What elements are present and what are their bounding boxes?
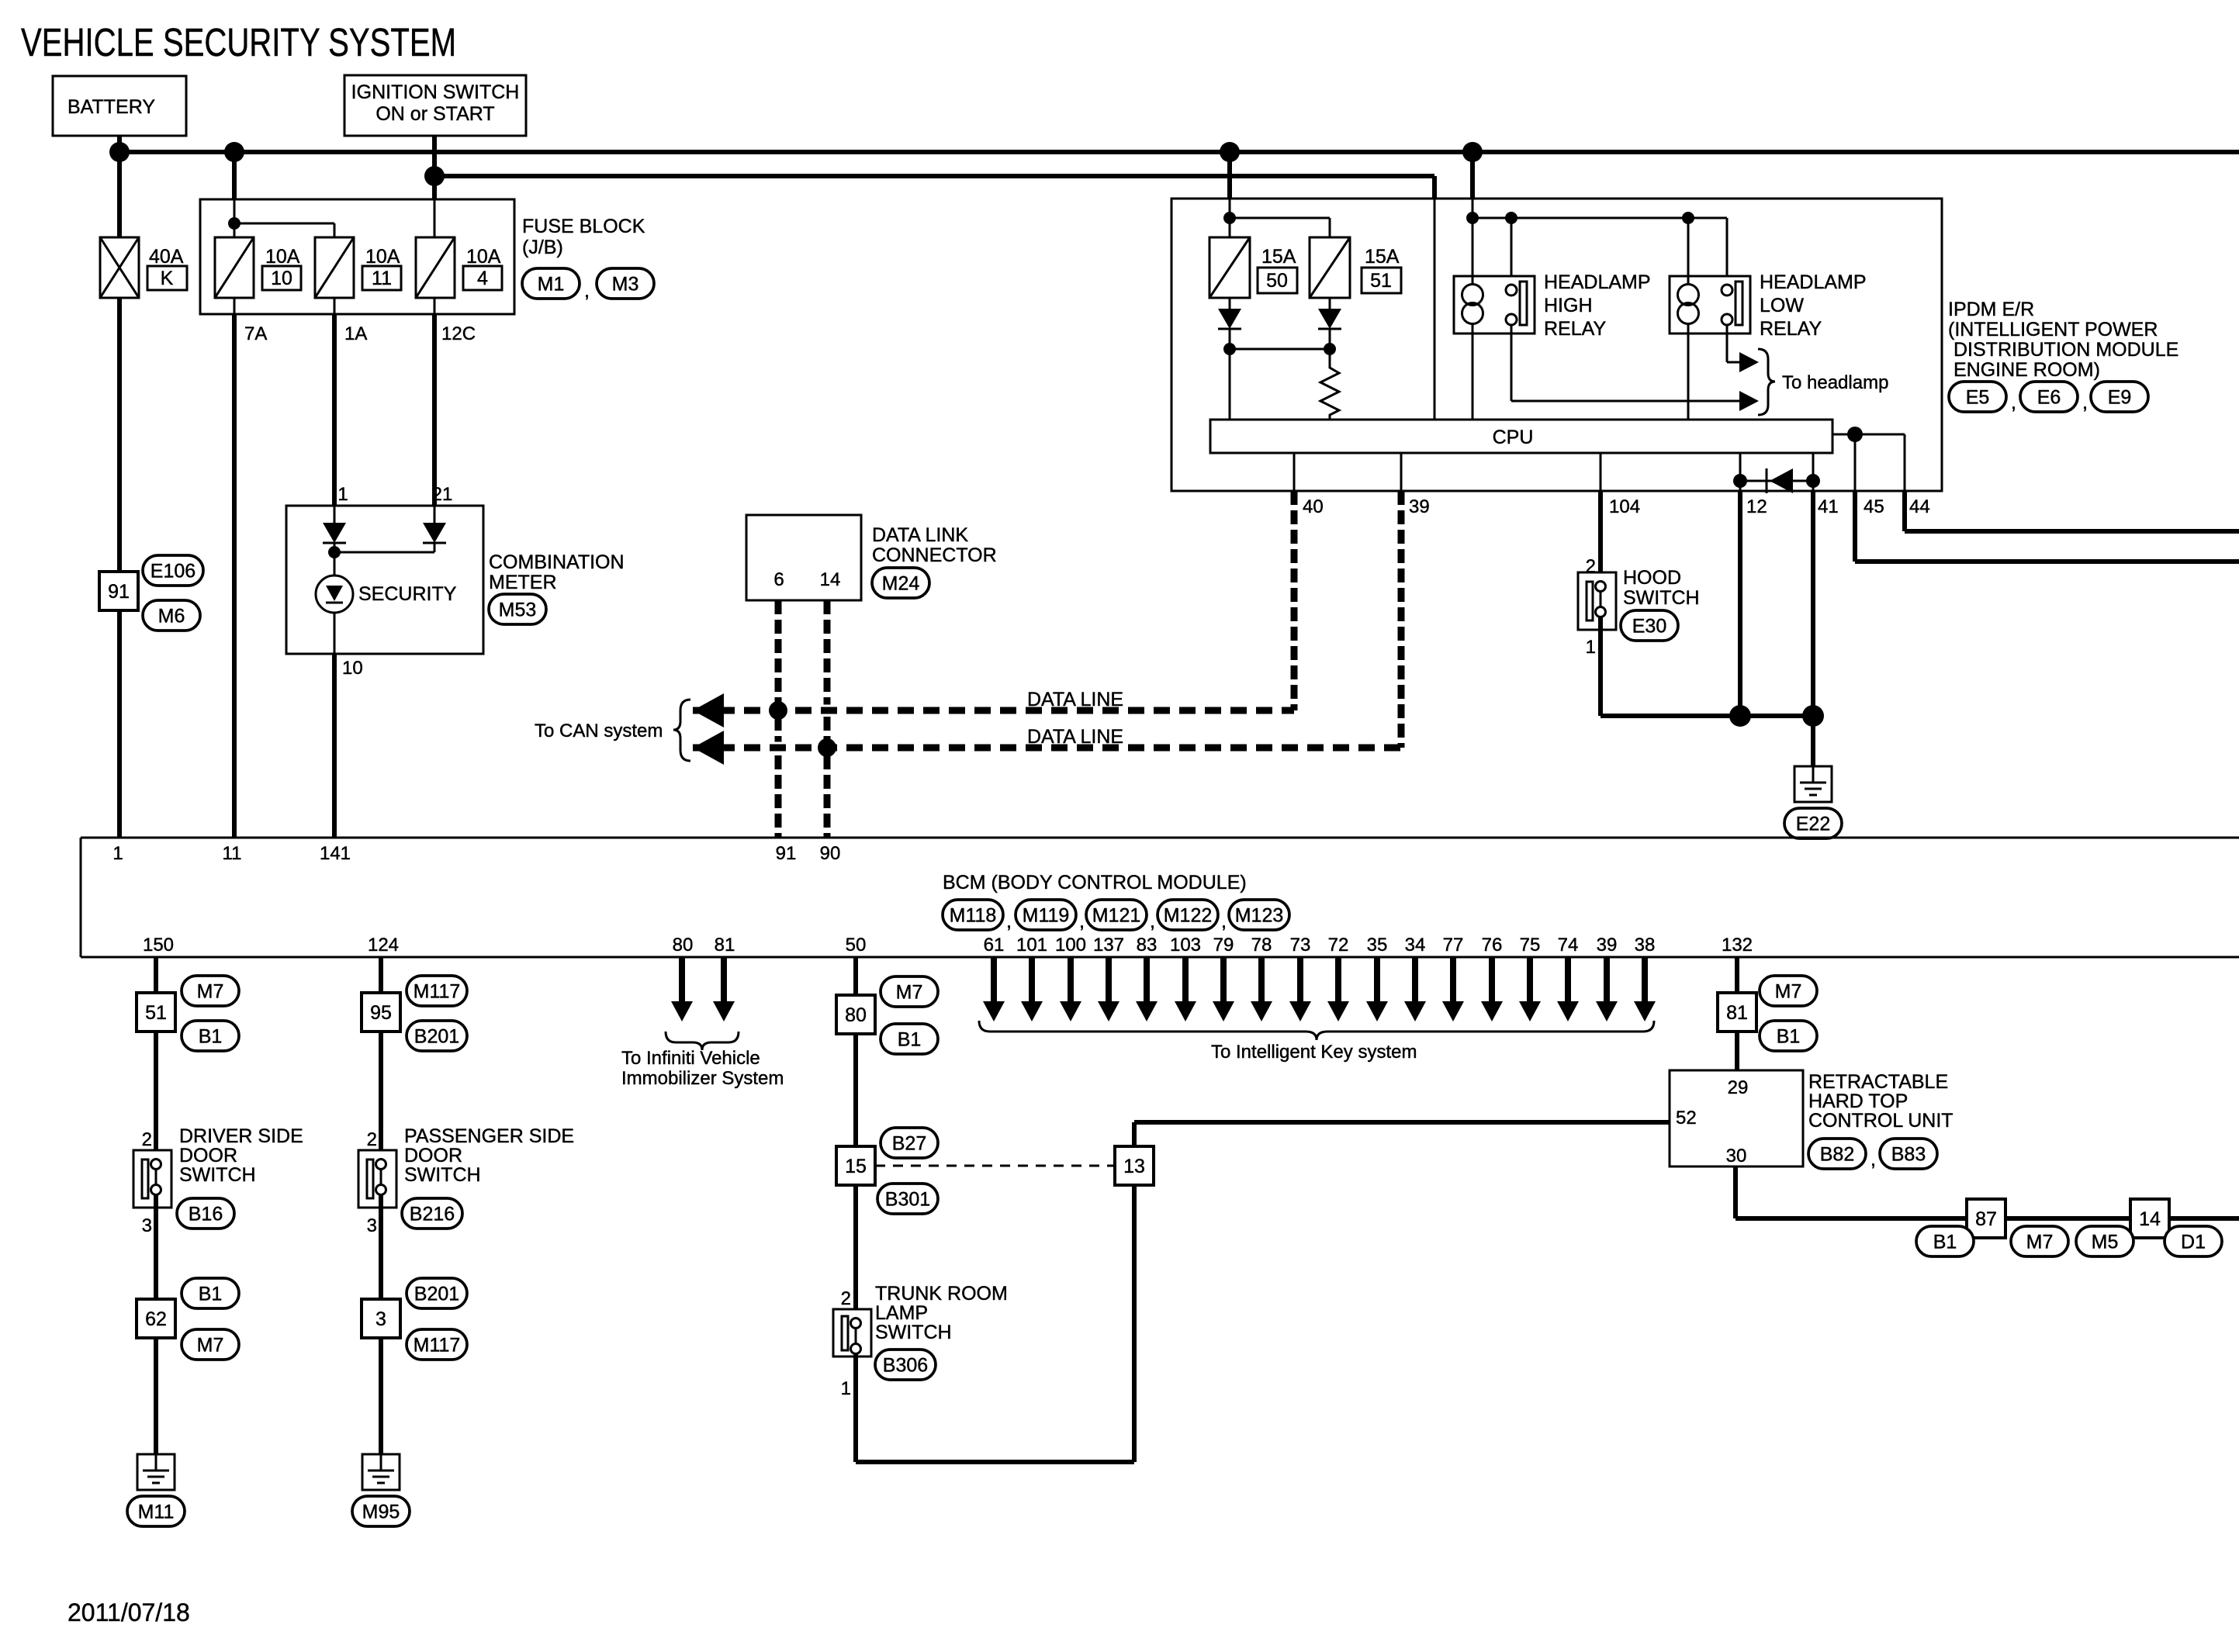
combination meter box [286, 506, 483, 654]
connector B1 [182, 1021, 239, 1051]
svg-text:PASSENGER SIDE: PASSENGER SIDE [404, 1125, 574, 1147]
svg-text:M6: M6 [158, 606, 185, 627]
svg-text:81: 81 [715, 935, 735, 956]
wire CPU to pin 41 [1812, 453, 1815, 491]
connector B16 [177, 1198, 234, 1229]
arrow BCM pin 137 to intelligent key [1106, 957, 1112, 1001]
connector 80 M7/B1 [836, 995, 875, 1034]
svg-text:104: 104 [1609, 496, 1640, 517]
svg-text:DATA LINE: DATA LINE [1027, 689, 1123, 710]
svg-text:39: 39 [1597, 935, 1618, 956]
svg-text:K: K [161, 268, 174, 289]
wire connector 62 to ground [154, 1338, 158, 1454]
wire ignition bus [434, 174, 1434, 178]
label fuse 51 box [1362, 268, 1401, 293]
wire pin 45 to right [1853, 491, 1857, 562]
wire CPU right to pins 45 44 [1832, 434, 1905, 436]
junction under diode 51 [1324, 343, 1336, 355]
junction battery bus to fuse block [224, 142, 244, 162]
svg-text:1: 1 [1586, 637, 1596, 658]
svg-text:10: 10 [342, 658, 363, 679]
wire diode outputs join [434, 543, 436, 552]
svg-text:6: 6 [773, 569, 784, 590]
svg-text:B301: B301 [885, 1189, 930, 1211]
svg-text:HIGH: HIGH [1544, 295, 1593, 316]
svg-text:35: 35 [1367, 935, 1388, 956]
connector B83 [1880, 1139, 1937, 1169]
label fuse 11 box [362, 266, 401, 290]
arrow BCM pin 76 to intelligent key [1489, 957, 1495, 1001]
wire high relay coil to CPU [1472, 334, 1474, 420]
svg-text:IPDM E/R: IPDM E/R [1948, 299, 2034, 320]
junction ignition bus [424, 166, 445, 186]
svg-text:METER: METER [489, 572, 557, 593]
junction relay rail 3 [1682, 212, 1694, 224]
svg-text:B82: B82 [1820, 1144, 1854, 1166]
svg-text:SWITCH: SWITCH [404, 1164, 481, 1186]
svg-text:,: , [1221, 911, 1227, 932]
svg-text:1: 1 [841, 1378, 851, 1399]
arrow to headlamp upper [1739, 352, 1759, 372]
svg-text:RELAY: RELAY [1760, 318, 1822, 340]
svg-text:DATA LINE: DATA LINE [1027, 726, 1123, 748]
wire meter pin 10 to BCM pin 141 [332, 654, 337, 838]
wire to high relay coil [1472, 218, 1474, 285]
svg-text:Immobilizer System: Immobilizer System [621, 1068, 784, 1089]
svg-text:M5: M5 [2092, 1232, 2119, 1253]
svg-text:2: 2 [142, 1129, 152, 1150]
arrow to headlamp lower [1739, 391, 1759, 411]
arrow BCM pin 81 to immobilizer [721, 957, 727, 1001]
wire 7A to BCM pin 11 [232, 314, 237, 838]
wire 12C to combination meter pin 21 [432, 314, 437, 506]
svg-text:D1: D1 [2181, 1232, 2206, 1253]
label fuse 4 box [463, 266, 502, 290]
arrow BCM pin 80 to immobilizer [679, 957, 685, 1001]
svg-text:E5: E5 [1966, 387, 1990, 409]
wire joining diode outputs [1230, 348, 1330, 351]
svg-text:34: 34 [1405, 935, 1426, 956]
svg-text:79: 79 [1213, 935, 1234, 956]
ground M95 [362, 1454, 400, 1490]
wire data line upper to CAN system [722, 705, 1280, 717]
CPU box [1210, 420, 1832, 453]
svg-text:CONTROL UNIT: CONTROL UNIT [1808, 1110, 1954, 1132]
wire to high relay contact [1511, 218, 1513, 285]
svg-text:LOW: LOW [1760, 295, 1804, 316]
svg-text:CONNECTOR: CONNECTOR [872, 544, 997, 566]
connector 81 M7/B1 [1718, 993, 1756, 1032]
svg-text:150: 150 [143, 935, 174, 956]
wire hard top pin 30 to right [1733, 1166, 1738, 1218]
arrow BCM pin 79 to intelligent key [1220, 957, 1227, 1001]
svg-text:73: 73 [1290, 935, 1311, 956]
diode under fuse 50 [1218, 309, 1241, 329]
wire data line lower to CAN system [722, 742, 1381, 754]
svg-text:M119: M119 [1023, 905, 1070, 927]
relay headlamp low [1670, 276, 1750, 334]
wire trunk switch to connector 13 [853, 1353, 858, 1462]
svg-text:40: 40 [1303, 496, 1324, 517]
svg-text:101: 101 [1016, 935, 1047, 956]
svg-text:M3: M3 [612, 274, 639, 295]
svg-text:78: 78 [1251, 935, 1272, 956]
svg-text:,: , [2082, 392, 2088, 413]
connector B82 [1808, 1139, 1866, 1169]
wire pin 45 inside [1854, 434, 1857, 491]
relay headlamp high [1454, 276, 1535, 334]
svg-text:1: 1 [337, 484, 348, 505]
svg-text:M7: M7 [197, 981, 224, 1003]
svg-text:IGNITION SWITCH: IGNITION SWITCH [351, 81, 520, 103]
svg-text:10: 10 [271, 268, 292, 289]
svg-text:100: 100 [1055, 935, 1086, 956]
svg-text:B201: B201 [414, 1026, 459, 1048]
svg-text:(J/B): (J/B) [522, 237, 563, 258]
svg-text:SECURITY: SECURITY [358, 583, 457, 605]
svg-text:91: 91 [108, 581, 130, 603]
svg-text:B16: B16 [189, 1204, 223, 1225]
svg-text:91: 91 [776, 843, 797, 864]
wire dashed link 15 to 13 [875, 1165, 1115, 1167]
svg-text:95: 95 [370, 1002, 392, 1024]
junction relay rail 2 [1505, 212, 1517, 224]
svg-text:72: 72 [1328, 935, 1349, 956]
wire to low relay coil [1687, 218, 1690, 285]
arrow CAN upper [693, 693, 724, 728]
svg-text:B1: B1 [898, 1029, 922, 1051]
svg-text:40A: 40A [149, 246, 184, 268]
connector M117 [407, 1329, 467, 1360]
junction relay rail 1 [1466, 212, 1479, 224]
svg-text:2: 2 [1586, 556, 1596, 577]
svg-text:74: 74 [1558, 935, 1579, 956]
svg-text:7A: 7A [244, 323, 267, 344]
svg-text:80: 80 [845, 1004, 867, 1026]
svg-text:M7: M7 [896, 982, 923, 1004]
junction ground rail 1 [1729, 705, 1751, 727]
connector 14 M5/D1 [2130, 1199, 2169, 1238]
BCM body control module box [81, 837, 2239, 839]
connector M119 [1016, 900, 1076, 930]
svg-text:81: 81 [1726, 1002, 1748, 1024]
arrow BCM pin 72 to intelligent key [1335, 957, 1341, 1001]
svg-text:21: 21 [432, 484, 453, 505]
connector M11 [127, 1496, 185, 1526]
wire battery to fuse K [117, 152, 122, 237]
wire bus to fuse block feed [232, 152, 237, 199]
junction diodes [328, 546, 341, 558]
svg-text:M121: M121 [1092, 905, 1141, 927]
data link connector box [746, 515, 861, 600]
fuse 40A K fusible link [100, 237, 139, 298]
wire junction to ground [1740, 714, 1813, 718]
svg-text:4: 4 [477, 268, 488, 289]
connector M24 [872, 568, 929, 598]
wire pin 104 to hood switch [1598, 491, 1603, 582]
connector M95 [352, 1496, 410, 1526]
brace immobilizer [666, 1032, 739, 1050]
wire pin21 to diode [434, 506, 436, 523]
svg-text:2: 2 [841, 1288, 851, 1309]
arrow BCM pin 77 to intelligent key [1450, 957, 1456, 1001]
svg-text:M118: M118 [950, 905, 997, 927]
svg-text:TRUNK ROOM: TRUNK ROOM [875, 1283, 1008, 1305]
svg-text:124: 124 [368, 935, 399, 956]
trunk room lamp switch [833, 1309, 871, 1357]
svg-text:41: 41 [1818, 496, 1839, 517]
svg-text:BCM (BODY CONTROL MODULE): BCM (BODY CONTROL MODULE) [943, 872, 1247, 893]
wire 1A to combination meter pin 1 [332, 314, 337, 506]
arrow CAN lower [693, 731, 724, 765]
svg-text:RELAY: RELAY [1544, 318, 1606, 340]
wire bus to 15A fuses [1227, 152, 1232, 199]
fuse block J/B box [200, 199, 514, 314]
wire diode 51 to resistor [1329, 329, 1331, 365]
connector B27 [881, 1128, 938, 1158]
connector M122 [1158, 900, 1218, 930]
connector E5 [1949, 382, 2006, 412]
svg-text:77: 77 [1443, 935, 1464, 956]
svg-text:HARD TOP: HARD TOP [1808, 1090, 1908, 1112]
passenger side door switch [358, 1150, 396, 1208]
svg-text:To Infiniti Vehicle: To Infiniti Vehicle [621, 1048, 760, 1069]
hood switch [1578, 572, 1616, 630]
wire feed to fuse 51 [1230, 217, 1330, 219]
diode meter left [323, 523, 346, 543]
connector M123 [1229, 900, 1289, 930]
connector M6 [143, 600, 200, 631]
svg-text:B1: B1 [199, 1026, 223, 1048]
svg-text:DATA LINK: DATA LINK [872, 524, 968, 546]
svg-text:DOOR: DOOR [179, 1145, 237, 1166]
svg-text:12: 12 [1746, 496, 1767, 517]
svg-text:10A: 10A [365, 246, 400, 268]
svg-text:11: 11 [372, 268, 392, 289]
wire connector 15 to trunk switch [853, 1185, 858, 1328]
connector B201 [407, 1021, 467, 1051]
arrow BCM pin 78 to intelligent key [1258, 957, 1265, 1001]
junction CPU right [1847, 427, 1863, 442]
connector M1 [522, 268, 580, 299]
svg-text:M24: M24 [882, 573, 920, 595]
svg-text:13: 13 [1123, 1156, 1145, 1177]
svg-text:E9: E9 [2108, 387, 2132, 409]
ignition switch supply [344, 75, 526, 136]
svg-text:M7: M7 [197, 1335, 224, 1357]
connector E9 [2091, 382, 2148, 412]
arrow BCM pin 100 to intelligent key [1068, 957, 1074, 1001]
svg-text:44: 44 [1909, 496, 1930, 517]
label fuse 50 box [1258, 268, 1297, 293]
svg-text:(INTELLIGENT POWER: (INTELLIGENT POWER [1948, 319, 2158, 340]
wire to low relay contact [1726, 218, 1729, 285]
svg-text:LAMP: LAMP [875, 1302, 928, 1324]
wire pin 44 to right [1902, 491, 1907, 531]
svg-text:61: 61 [984, 935, 1005, 956]
wire low relay coil to CPU [1687, 334, 1690, 420]
ground E22 [1794, 766, 1832, 802]
connector B216 [402, 1198, 462, 1229]
svg-text:132: 132 [1722, 935, 1753, 956]
wire battery to bus [117, 136, 122, 152]
connector M121 [1086, 900, 1147, 930]
fuse 10A 10 [215, 237, 254, 298]
svg-text:103: 103 [1170, 935, 1201, 956]
connector M7 [182, 976, 239, 1006]
junction battery bus at battery [109, 142, 130, 162]
svg-text:B1: B1 [199, 1284, 223, 1305]
arrow BCM pin 73 to intelligent key [1297, 957, 1303, 1001]
svg-text:75: 75 [1520, 935, 1541, 956]
wire battery bus [119, 150, 2239, 154]
svg-text:To CAN system: To CAN system [535, 721, 663, 741]
connector M7 [1760, 976, 1817, 1006]
svg-text:29: 29 [1728, 1077, 1749, 1098]
brace to headlamp [1758, 349, 1775, 415]
wire CPU to pin 12 [1739, 453, 1742, 491]
connector B201 [407, 1278, 467, 1308]
wire fuse 11 to pin 1A [334, 298, 336, 314]
svg-text:M11: M11 [138, 1502, 175, 1523]
svg-text:To headlamp: To headlamp [1782, 372, 1888, 393]
svg-text:M53: M53 [499, 600, 537, 621]
connector D1 [2165, 1226, 2222, 1256]
svg-text:,: , [1006, 911, 1012, 932]
svg-text:137: 137 [1093, 935, 1124, 956]
junction under diode 50 [1223, 343, 1236, 355]
wire high relay contact to headlamp lower [1511, 325, 1513, 401]
svg-text:M117: M117 [414, 981, 461, 1003]
svg-text:50: 50 [1266, 270, 1288, 292]
svg-text:B201: B201 [414, 1284, 459, 1305]
svg-text:DISTRIBUTION MODULE: DISTRIBUTION MODULE [1954, 339, 2178, 361]
connector 87 B1/M7 [1967, 1199, 2005, 1238]
svg-text:50: 50 [846, 935, 867, 956]
wire diode row 12-41 [1740, 480, 1813, 482]
svg-text:10A: 10A [466, 246, 501, 268]
wire BCM pin 150 down [154, 957, 158, 1160]
connector 13 [1115, 1146, 1154, 1185]
svg-text:3: 3 [375, 1308, 386, 1330]
connector B1 [881, 1024, 938, 1054]
wire passenger switch to connector 3 [379, 1194, 383, 1299]
junction battery bus to IPDM fuses [1220, 142, 1240, 162]
ground M11 [137, 1454, 175, 1490]
connector E106 [143, 555, 203, 586]
svg-text:B1: B1 [1777, 1026, 1801, 1048]
wire pin 44 inside [1904, 434, 1906, 491]
arrow BCM pin 38 to intelligent key [1642, 957, 1648, 1001]
svg-text:DRIVER SIDE: DRIVER SIDE [179, 1125, 303, 1147]
svg-text:51: 51 [1370, 270, 1392, 292]
wire CAN-H pin 6 to BCM pin 91 [775, 600, 782, 838]
resistor in IPDM [1320, 365, 1339, 420]
svg-text:14: 14 [820, 569, 841, 590]
svg-text:141: 141 [320, 843, 351, 864]
wire relay feed rail [1472, 217, 1727, 219]
svg-text:To Intelligent Key system: To Intelligent Key system [1211, 1042, 1417, 1063]
svg-text:,: , [1870, 1149, 1876, 1170]
brace To CAN system [673, 700, 690, 761]
connector M53 [489, 594, 546, 624]
svg-text:45: 45 [1864, 496, 1884, 517]
svg-text:10A: 10A [265, 246, 300, 268]
svg-text:E6: E6 [2037, 387, 2061, 409]
svg-text:3: 3 [367, 1215, 377, 1236]
svg-text:HEADLAMP: HEADLAMP [1544, 271, 1651, 293]
diode meter right [423, 523, 446, 543]
battery B+ supply [53, 76, 186, 136]
wire fuse K to connector 91 [117, 298, 122, 572]
svg-text:SWITCH: SWITCH [875, 1322, 952, 1343]
arrow BCM pin 74 to intelligent key [1565, 957, 1571, 1001]
svg-text:,: , [2011, 392, 2016, 413]
connector 51 M7/B1 [137, 993, 175, 1032]
arrow BCM pin 34 to intelligent key [1412, 957, 1418, 1001]
svg-text:FUSE BLOCK: FUSE BLOCK [522, 216, 645, 237]
diode between pins 12 and 41 [1766, 468, 1768, 493]
svg-text:15: 15 [845, 1156, 867, 1177]
junction fuse feed [228, 217, 241, 230]
svg-text:76: 76 [1482, 935, 1503, 956]
connector 15 B27/B301 [836, 1146, 875, 1185]
wire pin 41 down [1811, 491, 1815, 716]
junction 15A fuse feed [1223, 212, 1236, 224]
svg-text:RETRACTABLE: RETRACTABLE [1808, 1071, 1948, 1093]
connector E6 [2020, 382, 2078, 412]
svg-text:SWITCH: SWITCH [179, 1164, 256, 1186]
svg-text:HOOD: HOOD [1623, 567, 1681, 589]
connector 91 E106/M6 [99, 572, 138, 610]
wire driver switch to connector 62 [154, 1194, 158, 1299]
svg-text:COMBINATION: COMBINATION [489, 551, 625, 573]
svg-text:M7: M7 [1775, 981, 1802, 1003]
wire ignition feed to CPU [1434, 199, 1436, 420]
junction data line upper [769, 701, 787, 720]
connector M7 [881, 976, 938, 1007]
wire CAN-L pin 14 to BCM pin 90 [824, 600, 831, 838]
label fuse 10 box [262, 266, 301, 290]
IPDM E/R box [1171, 199, 1942, 491]
svg-text:51: 51 [145, 1002, 167, 1024]
junction ground rail 2 [1802, 705, 1824, 727]
wire CPU to pin 39 [1400, 453, 1403, 491]
connector E22 [1784, 808, 1842, 838]
connector 62 B1/M7 [137, 1299, 175, 1338]
junction battery bus to headlamp relays [1462, 142, 1483, 162]
svg-text:3: 3 [142, 1215, 152, 1236]
svg-text:B83: B83 [1891, 1144, 1926, 1166]
label K box [147, 266, 187, 290]
arrow BCM pin 61 to intelligent key [991, 957, 997, 1001]
connector M7 [2011, 1226, 2068, 1256]
connector M7 [182, 1329, 239, 1360]
wire hood switch to junction [1598, 617, 1603, 716]
svg-text:DOOR: DOOR [404, 1145, 462, 1166]
svg-text:15A: 15A [1365, 246, 1400, 268]
svg-text:BATTERY: BATTERY [67, 96, 155, 118]
svg-text:1: 1 [112, 843, 123, 864]
fuse 15A 51 [1310, 237, 1350, 298]
security indicator LED [316, 575, 353, 613]
retractable hard top control unit box [1670, 1070, 1803, 1166]
wire feed to fuse 11 [234, 223, 334, 225]
svg-text:B216: B216 [410, 1204, 455, 1225]
svg-text:38: 38 [1635, 935, 1656, 956]
svg-text:12C: 12C [441, 323, 476, 344]
svg-text:87: 87 [1975, 1208, 1997, 1230]
